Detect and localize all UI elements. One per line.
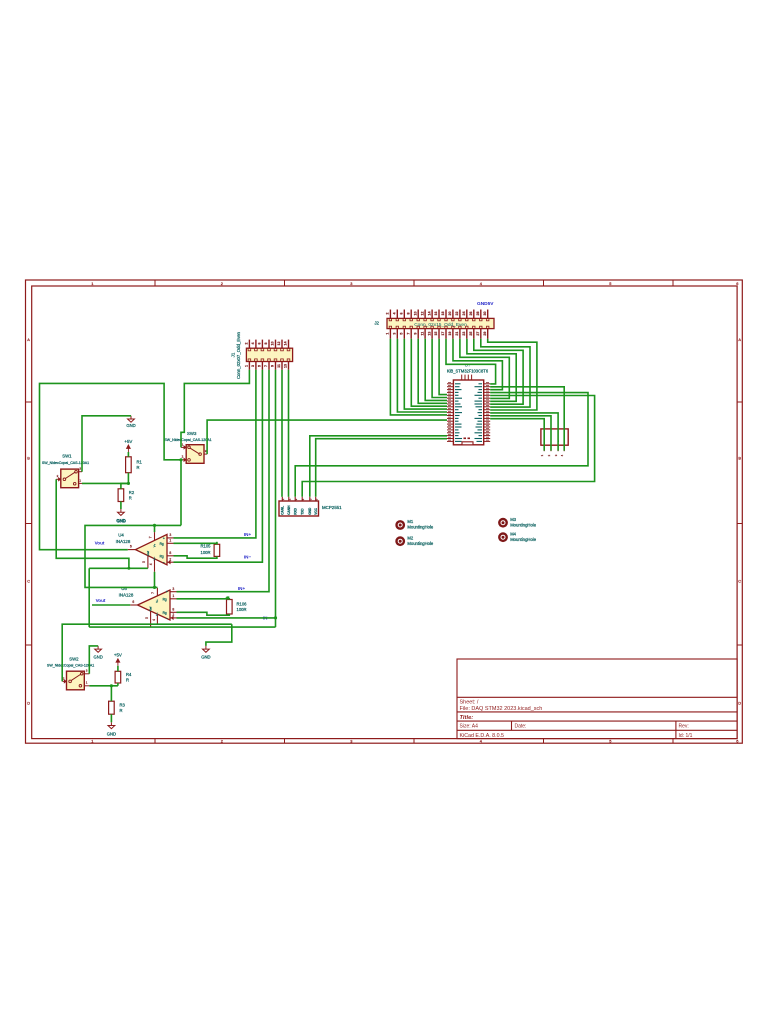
svg-text:24: 24	[462, 312, 466, 316]
svg-text:IN+: IN+	[238, 586, 246, 591]
svg-text:MountingHole: MountingHole	[407, 541, 434, 546]
svg-text:GND: GND	[308, 507, 312, 515]
svg-text:VCC: VCC	[314, 507, 318, 514]
svg-text:TXD: TXD	[300, 508, 304, 515]
svg-text:IN−: IN−	[244, 555, 252, 560]
svg-text:30: 30	[483, 312, 487, 316]
svg-text:Conn_02x15_Odd_Even: Conn_02x15_Odd_Even	[414, 322, 467, 328]
svg-text:Ref: Ref	[146, 551, 150, 556]
wire J2 pin11 to MCU right	[460, 339, 509, 399]
svg-text:Rg: Rg	[160, 542, 164, 546]
svg-text:RXD: RXD	[293, 507, 297, 514]
svg-text:10: 10	[413, 312, 417, 316]
svg-text:1: 1	[386, 333, 390, 335]
wire J2 pin3 to MCU left	[404, 339, 447, 409]
wire J2 pin13 to MCU right	[474, 339, 523, 404]
resistor R1	[126, 457, 132, 473]
svg-text:R106: R106	[237, 602, 248, 607]
svg-text:6: 6	[736, 281, 738, 286]
svg-text:5: 5	[400, 333, 404, 335]
mounting hole M4	[498, 532, 508, 542]
svg-text:27: 27	[476, 332, 480, 336]
connector J1 bottom pins (odd 1-13)	[248, 362, 250, 370]
op-amp U4 input pin 2	[167, 561, 174, 563]
svg-text:IN+: IN+	[244, 532, 252, 537]
svg-text:Sheet: /: Sheet: /	[460, 700, 479, 706]
svg-text:+5V: +5V	[124, 439, 132, 444]
ground symbol bottom center	[205, 646, 207, 649]
svg-text:5: 5	[142, 561, 146, 563]
op-amp U5 triangle body	[138, 590, 171, 620]
svg-text:13: 13	[427, 332, 431, 336]
svg-text:11: 11	[277, 364, 281, 368]
can transceiver U? pins	[281, 497, 283, 501]
wire J2 pin1 to MCU left	[390, 339, 447, 415]
svg-text:U4: U4	[118, 533, 124, 538]
sheet border frame inner	[32, 286, 737, 739]
wire J1 pin1 to SW3 top-left pin	[181, 370, 249, 448]
svg-text:R3: R3	[120, 703, 126, 708]
wire J2 pin2 to MCU left	[397, 339, 447, 412]
connector J2 bottom pins (odd)	[389, 329, 391, 339]
svg-text:Size: A4: Size: A4	[460, 724, 479, 730]
svg-text:16: 16	[434, 312, 438, 316]
wire SW1 left pin tap to REF row	[56, 479, 129, 568]
resistor R2	[118, 489, 124, 502]
svg-text:R2: R2	[129, 490, 135, 495]
wire MCP2551 VCC to MCU left	[316, 439, 447, 497]
wire J1 pin3 to U4 pin3 (IN+)	[174, 370, 256, 538]
svg-text:KiB_STM32F103C8T6: KiB_STM32F103C8T6	[447, 369, 489, 374]
can transceiver U? MCP2551 body	[279, 501, 319, 516]
row tick marks right	[737, 401, 742, 403]
svg-text:4: 4	[251, 343, 255, 345]
svg-text:14: 14	[427, 312, 431, 316]
op-amp U5 ref pin 5	[150, 611, 152, 627]
svg-text:22: 22	[455, 312, 459, 316]
connector J3 pins	[543, 445, 545, 451]
resistor R3	[109, 701, 115, 714]
op-amp U4 pin 1 Rg	[167, 542, 174, 544]
svg-text:SW_NidecCopal_CAS-120A1: SW_NidecCopal_CAS-120A1	[164, 438, 211, 442]
wire J1 pin11 to MCP2551 CANL	[281, 370, 283, 497]
op-amp U5 output pin 6	[130, 604, 137, 606]
switch SW1 body	[61, 469, 79, 488]
svg-text:R1: R1	[137, 460, 143, 465]
wire U5 output with Vout label	[92, 604, 130, 606]
resistor R106	[227, 600, 233, 615]
op-amp U4 ref pin 5	[147, 555, 149, 568]
svg-text:1: 1	[245, 365, 249, 367]
column tick marks bottom	[154, 739, 156, 744]
+5V symbol above R4	[117, 661, 119, 666]
junction R3 tap	[110, 684, 113, 687]
svg-text:12: 12	[277, 342, 281, 346]
wire U4 pin1 to R105 top	[174, 543, 217, 544]
svg-text:3: 3	[393, 333, 397, 335]
svg-text:2: 2	[172, 613, 174, 617]
svg-text:12: 12	[420, 312, 424, 316]
svg-text:R: R	[129, 495, 132, 500]
svg-text:5: 5	[145, 617, 149, 619]
svg-text:3: 3	[350, 738, 352, 743]
mcu U? bottom notch	[462, 442, 473, 445]
wire MCP2551 TXD loop to MCU right	[302, 396, 594, 497]
svg-text:M3: M3	[510, 517, 516, 522]
svg-text:MountingHole: MountingHole	[510, 537, 537, 542]
svg-text:7: 7	[406, 333, 410, 335]
svg-text:MountingHole: MountingHole	[510, 522, 537, 527]
svg-text:9: 9	[413, 333, 417, 335]
wire SW2 top-right to GND	[89, 646, 98, 674]
svg-text:Rg: Rg	[163, 598, 167, 602]
mounting hole M2	[395, 536, 405, 546]
svg-text:Date:: Date:	[515, 724, 527, 730]
wire U5 pin8 to R106 bottom	[177, 612, 230, 615]
svg-text:11: 11	[420, 332, 424, 336]
junction SW3 bottom-left pin	[179, 458, 182, 461]
svg-text:1: 1	[91, 738, 93, 743]
svg-text:SW1: SW1	[62, 453, 72, 458]
svg-text:SW_NidecCopal_CAS-120A1: SW_NidecCopal_CAS-120A1	[47, 664, 94, 668]
svg-text:CANH: CANH	[287, 505, 291, 515]
svg-text:J2: J2	[374, 321, 379, 326]
switch SW1 pin bottom right	[79, 482, 82, 484]
wire SW1 bottom-right pin to R1 bottom	[82, 482, 128, 484]
connector J2 top pins (even)	[389, 310, 391, 319]
connector J3 body	[541, 429, 568, 445]
svg-text:1: 1	[172, 594, 174, 598]
wire J2 pin10 to MCU right	[453, 339, 502, 390]
resistor R105	[214, 544, 220, 556]
wire J2 pin8 to MCU left	[439, 339, 447, 395]
svg-text:GND: GND	[201, 655, 210, 660]
mcu U? right pin names	[479, 383, 483, 385]
mounting hole M1	[395, 520, 405, 530]
svg-text:C: C	[738, 579, 741, 584]
svg-text:6: 6	[400, 313, 404, 315]
mcu U? left pin names	[455, 383, 461, 385]
svg-text:5: 5	[258, 365, 262, 367]
mcu U? top pins	[461, 375, 463, 380]
svg-text:6: 6	[258, 343, 262, 345]
svg-text:17: 17	[441, 332, 445, 336]
switch SW2 pin bottom right	[84, 685, 89, 687]
svg-text:14: 14	[284, 342, 288, 346]
svg-text:Rg: Rg	[163, 611, 167, 615]
wire J1 pin7 to U5 pin3 (IN+)	[177, 370, 270, 592]
svg-text:Rev:: Rev:	[679, 724, 689, 730]
op-amp U4 pin 8 Rg	[167, 555, 174, 557]
+5V symbol above R1	[127, 448, 129, 453]
wire U4 REF row	[89, 567, 148, 569]
svg-text:INA128: INA128	[119, 592, 134, 597]
svg-text:20: 20	[448, 312, 452, 316]
op-amp U5 power pin 7	[156, 588, 158, 596]
svg-text:6: 6	[132, 600, 134, 604]
svg-text:KiCad E.D.A. 8.0.5: KiCad E.D.A. 8.0.5	[460, 733, 505, 739]
wire lower rail to GND bottom center	[206, 624, 232, 646]
title block	[457, 659, 737, 739]
svg-text:B: B	[738, 456, 741, 461]
svg-text:21: 21	[455, 332, 459, 336]
wire J2 pin4 to MCU left	[411, 339, 447, 406]
svg-text:19: 19	[448, 332, 452, 336]
op-amp U5 input pin 2	[170, 617, 177, 619]
wire J2 pin7 to MCU left	[432, 339, 447, 398]
wire R3 top stem	[110, 686, 112, 701]
svg-text:File: DAQ STM32 2023.kicad_sch: File: DAQ STM32 2023.kicad_sch	[460, 706, 543, 712]
svg-text:7: 7	[264, 365, 268, 367]
switch SW2 body	[67, 671, 85, 690]
wire MCP2551 RXD loop to MCU right	[295, 393, 588, 497]
svg-text:A: A	[738, 337, 741, 342]
wire J3 pin3 to MCU right	[490, 413, 558, 451]
svg-text:3: 3	[172, 587, 174, 591]
wire U4 pin8 to R105 bottom	[174, 556, 217, 558]
wire GND rail drop to U4 pin7	[154, 525, 156, 532]
wire SW1 top-right pin to GND	[82, 416, 131, 472]
wire J3 pin2 to MCU right	[490, 416, 551, 451]
svg-text:GND: GND	[93, 655, 102, 660]
svg-text:2: 2	[386, 313, 390, 315]
wire J3 pin4 to MCU right (high route)	[490, 387, 564, 451]
svg-text:3: 3	[251, 365, 255, 367]
svg-text:R: R	[137, 465, 140, 470]
switch SW2 left pin 2	[62, 680, 66, 682]
wire U5 pin1 to R106 top	[177, 598, 230, 601]
svg-text:INA128: INA128	[116, 539, 131, 544]
wire J2 pin12 to MCU right	[467, 339, 516, 402]
wire REF row down to lower rail	[88, 568, 90, 627]
svg-text:CANL: CANL	[281, 506, 285, 515]
ground symbol below R3	[110, 722, 112, 725]
junction U5 pin2 net	[274, 616, 277, 619]
wire U4 pin4 down to U5 rail	[154, 572, 156, 588]
wire J1 pin5 to U4 pin2 (IN-)	[174, 370, 263, 562]
svg-text:GND: GND	[107, 732, 116, 737]
op-amp U5 pin 1 Rg	[170, 598, 177, 600]
wire SW3 bottom-left pin to GND rail	[180, 460, 182, 526]
svg-text:R4: R4	[126, 672, 132, 677]
wire J1 pin13 to MCP2551 CANH	[288, 370, 290, 497]
ground symbol near SW1 top	[130, 416, 132, 419]
svg-text:M2: M2	[407, 535, 413, 540]
op-amp U4 power pin 4	[154, 559, 156, 572]
svg-text:7: 7	[148, 536, 152, 538]
mcu U? right pins	[484, 383, 491, 385]
svg-text:R105: R105	[200, 544, 211, 549]
svg-text:GND: GND	[117, 519, 126, 524]
connector J1 body	[246, 348, 292, 361]
wire J2 pin9 to MCU right (over top)	[446, 339, 496, 384]
svg-text:4: 4	[393, 313, 397, 315]
wire J2 pin15 to MCU right	[488, 339, 537, 410]
svg-text:25: 25	[469, 332, 473, 336]
switch SW3 body	[186, 445, 204, 464]
wire SW2 net from lower rail	[62, 624, 232, 681]
op-amp U5 input pin 3	[170, 591, 177, 593]
svg-text:V−: V−	[152, 556, 156, 560]
svg-text:SW2: SW2	[69, 656, 79, 661]
svg-text:8: 8	[406, 313, 410, 315]
svg-text:+: +	[163, 536, 165, 540]
svg-text:+5V: +5V	[114, 653, 122, 658]
mcu U? left pins	[447, 383, 453, 385]
svg-text:M4: M4	[510, 531, 516, 536]
svg-text:4: 4	[152, 619, 156, 621]
svg-text:V+: V+	[152, 543, 156, 547]
wire U4 output net to J1 area (Vout)	[40, 383, 182, 549]
svg-text:D: D	[738, 700, 741, 705]
wire R4 bottom stem	[117, 683, 119, 686]
switch SW2 pin top right	[84, 673, 89, 675]
svg-text:6: 6	[130, 545, 132, 549]
wire R1 bottom junction	[127, 473, 129, 484]
svg-text:C: C	[27, 579, 30, 584]
svg-text:−: −	[166, 616, 168, 620]
svg-text:A: A	[27, 337, 30, 342]
connector J1 top pins (even 2-14)	[248, 340, 250, 349]
ground symbol below R2	[120, 509, 122, 512]
svg-text:18: 18	[441, 312, 445, 316]
svg-text:GND5V: GND5V	[477, 301, 494, 307]
junction U4 V- on U5 rail	[153, 586, 156, 589]
svg-text:10: 10	[271, 342, 275, 346]
wire GND rail to op-amps	[85, 525, 181, 587]
svg-text:D: D	[27, 700, 30, 705]
svg-text:J1: J1	[231, 352, 236, 357]
svg-text:15: 15	[434, 332, 438, 336]
wire R106 top notch	[227, 596, 230, 598]
svg-text:1: 1	[169, 539, 171, 543]
svg-text:+: +	[166, 590, 168, 594]
switch SW3 left pin top	[181, 446, 186, 448]
op-amp U4 output pin 6	[128, 549, 136, 551]
svg-text:V−: V−	[155, 612, 159, 616]
op-amp U4 triangle body	[136, 534, 168, 564]
ground symbol near SW2	[97, 646, 99, 649]
svg-text:13: 13	[284, 364, 288, 368]
wire MCP2551 GND to MCU left	[310, 436, 447, 497]
svg-text:2: 2	[221, 281, 223, 286]
wire R2 top tap	[121, 483, 128, 488]
svg-text:SW3: SW3	[187, 431, 197, 436]
svg-text:23: 23	[462, 332, 466, 336]
wire J2 pin14 to MCU right	[481, 339, 530, 407]
wire J1 pin9 to U5 pin2 (IN-)	[177, 370, 276, 618]
row tick marks left	[26, 401, 32, 403]
switch SW1 left pin 2	[56, 478, 61, 480]
svg-text:2: 2	[169, 557, 171, 561]
svg-text:6: 6	[736, 738, 738, 743]
svg-text:−: −	[163, 561, 165, 565]
svg-text:R: R	[120, 708, 123, 713]
svg-text:Rg: Rg	[160, 555, 164, 559]
switch SW3 right pin	[204, 453, 207, 455]
svg-text:4: 4	[149, 563, 153, 565]
svg-text:1: 1	[91, 281, 93, 286]
svg-text:7: 7	[151, 592, 155, 594]
svg-text:100R: 100R	[237, 607, 247, 612]
svg-text:Vout: Vout	[96, 598, 106, 603]
svg-text:2: 2	[245, 343, 249, 345]
wire SW3 right pin to MCU left	[207, 420, 447, 454]
junction on REF row	[127, 567, 130, 570]
svg-text:Ref: Ref	[149, 606, 153, 611]
switch SW3 left pin bottom	[181, 459, 186, 461]
svg-text:8: 8	[169, 551, 171, 555]
wire J3 pin1 to MCU right	[490, 419, 544, 451]
op-amp U5 power pin 4	[156, 614, 158, 624]
svg-text:MCP2551: MCP2551	[322, 505, 342, 510]
svg-text:3: 3	[169, 533, 171, 537]
svg-text:29: 29	[483, 332, 487, 336]
sheet border frame outer	[26, 280, 743, 743]
svg-text:Vout: Vout	[95, 540, 105, 545]
wire J2 pin5 to MCU left	[418, 339, 447, 404]
mcu U? bottom marks	[464, 437, 467, 439]
op-amp U4 power pin 7	[154, 532, 156, 540]
junction U4 V+ on GND rail	[153, 524, 156, 527]
svg-text:9: 9	[271, 365, 275, 367]
wire lower ref rail to U5 pin2 net	[89, 626, 275, 628]
svg-text:28: 28	[476, 312, 480, 316]
svg-text:Title:: Title:	[460, 715, 474, 721]
svg-text:5: 5	[609, 738, 611, 743]
svg-text:B: B	[27, 456, 30, 461]
op-amp U5 pin 8 Rg	[170, 611, 177, 613]
svg-text:8: 8	[264, 343, 268, 345]
svg-text:Id: 1/1: Id: 1/1	[679, 733, 693, 739]
op-amp U4 input pin 3	[167, 537, 174, 539]
svg-text:100R: 100R	[200, 550, 210, 555]
mcu U? body	[453, 380, 483, 445]
svg-text:8: 8	[172, 607, 174, 611]
svg-text:GND: GND	[126, 423, 135, 428]
wire R105 top stem	[216, 542, 218, 545]
svg-text:V+: V+	[155, 599, 159, 603]
svg-text:2: 2	[221, 738, 223, 743]
connector J2 body	[387, 318, 494, 328]
column tick marks top	[154, 280, 156, 286]
svg-text:Conn_02x07_Odd_Even: Conn_02x07_Odd_Even	[236, 331, 241, 379]
svg-text:3: 3	[350, 281, 352, 286]
wire SW2 bottom-right to R4 bottom	[89, 685, 118, 687]
svg-text:R: R	[126, 677, 129, 682]
wire J2 pin6 to MCU left	[425, 339, 447, 401]
svg-text:M1: M1	[407, 519, 413, 524]
mounting hole M3	[498, 518, 508, 528]
svg-text:26: 26	[469, 312, 473, 316]
svg-text:MountingHole: MountingHole	[407, 525, 434, 530]
resistor R4	[115, 671, 121, 683]
svg-text:5: 5	[609, 281, 611, 286]
switch SW1 pin top right	[79, 471, 82, 473]
